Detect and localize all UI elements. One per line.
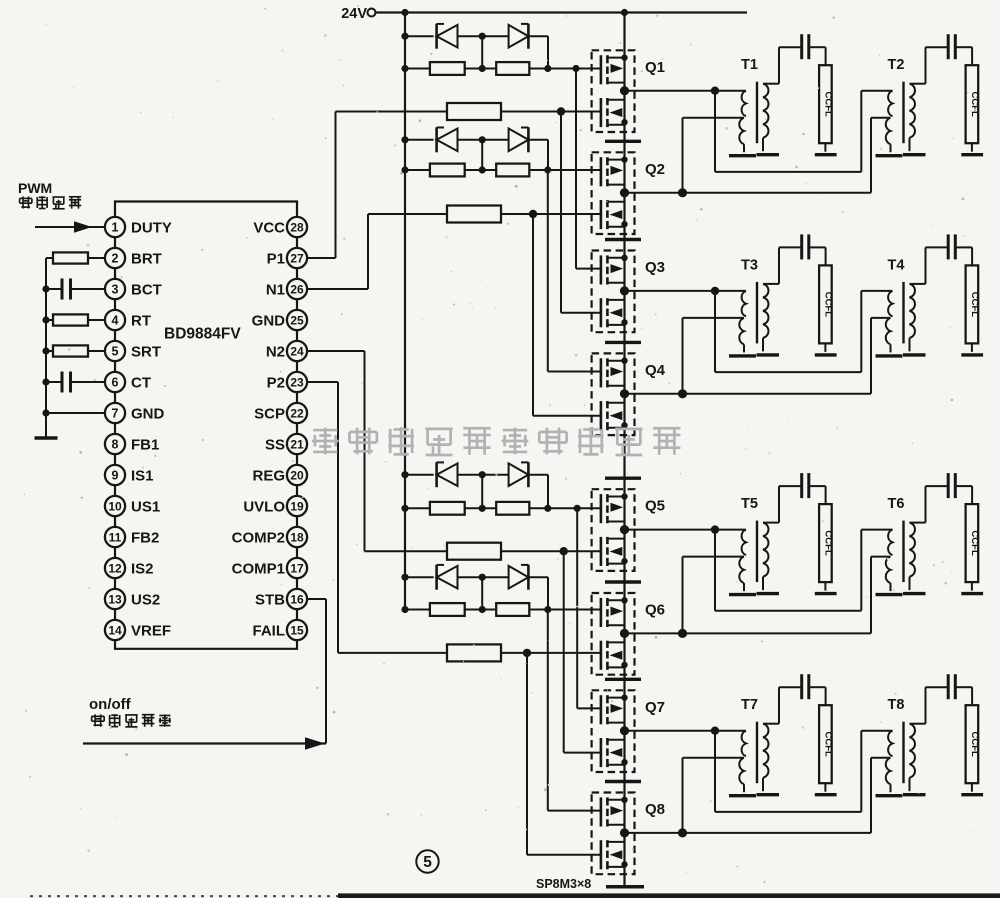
svg-text:CCFL: CCFL	[969, 292, 980, 318]
svg-text:2: 2	[112, 251, 119, 265]
svg-text:SP8M3×8: SP8M3×8	[536, 877, 591, 891]
svg-text:23: 23	[290, 375, 304, 389]
svg-text:CCFL: CCFL	[969, 732, 980, 758]
svg-text:GND: GND	[131, 405, 165, 422]
svg-text:3: 3	[112, 282, 119, 296]
svg-text:27: 27	[290, 251, 304, 265]
svg-text:Q1: Q1	[645, 59, 665, 76]
svg-text:RT: RT	[131, 312, 151, 329]
svg-text:DUTY: DUTY	[131, 219, 172, 236]
svg-text:CT: CT	[131, 374, 151, 391]
svg-text:24V: 24V	[341, 6, 367, 22]
svg-text:T1: T1	[741, 57, 758, 73]
svg-text:28: 28	[290, 220, 304, 234]
svg-text:8: 8	[112, 437, 119, 451]
svg-text:6: 6	[112, 375, 119, 389]
svg-text:COMP1: COMP1	[232, 560, 285, 577]
svg-text:14: 14	[108, 623, 122, 637]
svg-text:US2: US2	[131, 591, 160, 608]
svg-text:Q3: Q3	[645, 259, 665, 276]
svg-text:SCP: SCP	[254, 405, 285, 422]
svg-text:26: 26	[290, 282, 304, 296]
svg-text:COMP2: COMP2	[232, 529, 285, 546]
svg-text:P1: P1	[267, 250, 285, 267]
svg-text:18: 18	[290, 530, 304, 544]
svg-text:STB: STB	[255, 591, 285, 608]
svg-text:FB2: FB2	[131, 529, 159, 546]
svg-text:Q8: Q8	[645, 801, 665, 818]
svg-text:15: 15	[290, 623, 304, 637]
svg-text:PWM: PWM	[18, 180, 52, 196]
svg-text:N1: N1	[266, 281, 285, 298]
svg-text:Q7: Q7	[645, 699, 665, 716]
svg-text:T8: T8	[888, 697, 905, 713]
svg-text:VCC: VCC	[253, 219, 285, 236]
svg-text:BD9884FV: BD9884FV	[164, 326, 241, 343]
svg-text:Q6: Q6	[645, 602, 665, 619]
svg-text:7: 7	[112, 406, 119, 420]
svg-text:12: 12	[108, 561, 122, 575]
svg-text:N2: N2	[266, 343, 285, 360]
svg-text:10: 10	[108, 499, 122, 513]
svg-text:UVLO: UVLO	[243, 498, 285, 515]
svg-text:T6: T6	[888, 496, 905, 512]
svg-text:CCFL: CCFL	[969, 530, 980, 556]
svg-text:T4: T4	[888, 257, 905, 273]
svg-text:FB1: FB1	[131, 436, 159, 453]
svg-text:T5: T5	[741, 496, 758, 512]
svg-text:CCFL: CCFL	[822, 732, 833, 758]
svg-text:IS2: IS2	[131, 560, 154, 577]
svg-text:P2: P2	[267, 374, 285, 391]
svg-text:4: 4	[112, 313, 119, 327]
svg-text:on/off: on/off	[89, 696, 132, 713]
svg-text:24: 24	[290, 344, 304, 358]
svg-text:BCT: BCT	[131, 281, 162, 298]
svg-text:21: 21	[290, 437, 304, 451]
svg-text:T3: T3	[741, 257, 758, 273]
svg-text:CCFL: CCFL	[969, 92, 980, 118]
svg-text:VREF: VREF	[131, 622, 171, 639]
svg-text:Q5: Q5	[645, 498, 665, 515]
svg-text:SRT: SRT	[131, 343, 161, 360]
svg-text:17: 17	[290, 561, 304, 575]
svg-text:T7: T7	[741, 697, 758, 713]
svg-text:1: 1	[112, 220, 119, 234]
svg-text:REG: REG	[252, 467, 285, 484]
svg-text:IS1: IS1	[131, 467, 154, 484]
svg-text:16: 16	[290, 592, 304, 606]
svg-text:FAIL: FAIL	[253, 622, 286, 639]
svg-text:CCFL: CCFL	[822, 92, 833, 118]
svg-text:SS: SS	[265, 436, 285, 453]
svg-text:US1: US1	[131, 498, 160, 515]
svg-text:GND: GND	[252, 312, 286, 329]
svg-text:9: 9	[112, 468, 119, 482]
svg-text:19: 19	[290, 499, 304, 513]
svg-text:13: 13	[108, 592, 122, 606]
svg-text:20: 20	[290, 468, 304, 482]
svg-text:5: 5	[112, 344, 119, 358]
svg-text:BRT: BRT	[131, 250, 162, 267]
svg-text:CCFL: CCFL	[822, 530, 833, 556]
svg-text:T2: T2	[888, 57, 905, 73]
svg-text:Q4: Q4	[645, 362, 666, 379]
svg-text:Q2: Q2	[645, 161, 665, 178]
svg-text:11: 11	[109, 530, 122, 544]
svg-text:25: 25	[290, 313, 304, 327]
svg-text:5: 5	[423, 854, 432, 871]
svg-text:22: 22	[290, 406, 304, 420]
svg-text:CCFL: CCFL	[822, 292, 833, 318]
